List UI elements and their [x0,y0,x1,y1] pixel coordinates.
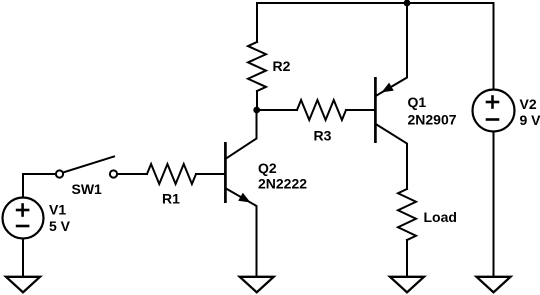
svg-text:2N2222: 2N2222 [258,175,307,191]
svg-text:Q2: Q2 [258,160,277,176]
svg-text:SW1: SW1 [72,181,103,197]
svg-text:2N2907: 2N2907 [408,112,457,128]
svg-text:V2: V2 [520,96,537,112]
svg-text:R2: R2 [273,58,291,74]
svg-text:Load: Load [424,209,457,225]
svg-text:Q1: Q1 [408,94,427,110]
svg-text:5 V: 5 V [49,218,71,234]
svg-text:9 V: 9 V [520,112,540,128]
svg-text:R1: R1 [162,190,180,206]
svg-text:V1: V1 [49,202,66,218]
svg-text:R3: R3 [314,128,332,144]
